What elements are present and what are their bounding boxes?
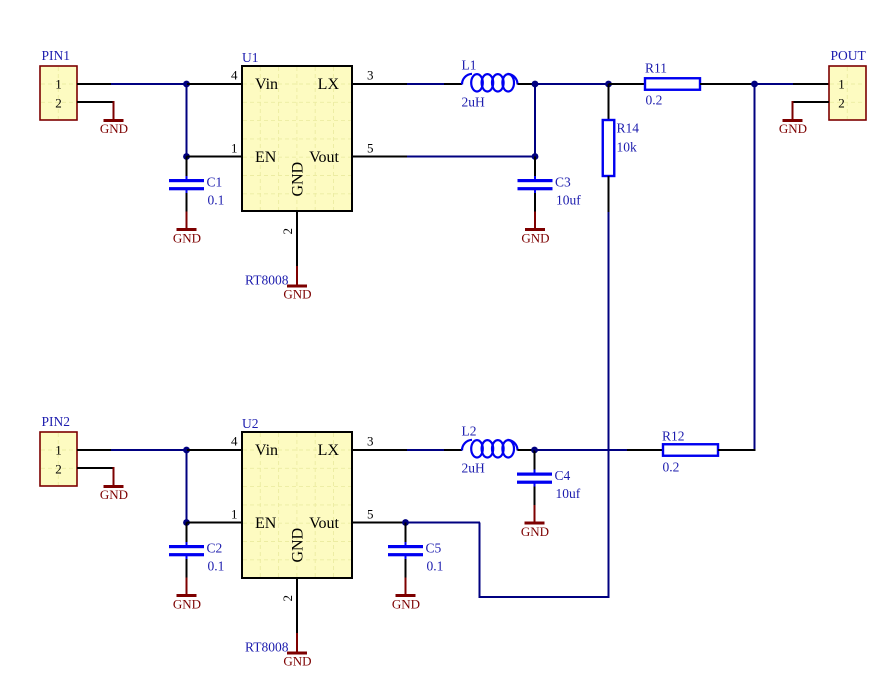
svg-text:0.1: 0.1 (208, 559, 225, 574)
inductor L1 2uH (462, 58, 518, 110)
svg-text:GND: GND (283, 287, 311, 302)
capacitor C4 10uf (517, 450, 581, 539)
pin number 1 of U2 (231, 507, 238, 522)
wire LX pin stub (352, 83, 407, 85)
svg-text:GND: GND (392, 597, 420, 612)
pin number 1 of U1 (231, 141, 238, 156)
wire PIN2 pin2 stub (77, 467, 114, 469)
svg-text:RT8008: RT8008 (245, 273, 289, 288)
wire Vin pin stub (187, 83, 242, 85)
node junction C3 (532, 153, 539, 160)
svg-text:Vin: Vin (255, 442, 278, 459)
IC U2 RT8008 regulator (242, 416, 352, 578)
svg-text:POUT: POUT (831, 48, 867, 63)
connector PIN2 (40, 414, 77, 486)
svg-text:C4: C4 (555, 468, 571, 483)
pin number 3 of U1 (367, 68, 374, 83)
svg-text:RT8008: RT8008 (245, 640, 289, 655)
IC U1 RT8008 regulator (242, 50, 352, 211)
wire R11 left lead (609, 83, 646, 85)
wire feedback bottom horizontal (479, 596, 610, 598)
node junction Vin rail at C2 (183, 447, 190, 454)
node junction C5 (402, 519, 409, 526)
svg-text:C3: C3 (555, 175, 571, 190)
svg-text:U2: U2 (242, 416, 259, 431)
node junction L1 output (532, 81, 539, 88)
capacitor C5 0.1 (388, 523, 443, 612)
connector PIN1 (40, 48, 77, 120)
wire junction to POUT pin1 (755, 83, 830, 85)
capacitor C1 0.1 (169, 157, 224, 246)
wire EN pin stub (187, 522, 243, 524)
wire PIN1 pin1 to junction (77, 83, 188, 85)
wire R14 bottom lead (608, 176, 610, 213)
node junction EN (183, 153, 190, 160)
svg-text:PIN1: PIN1 (42, 48, 71, 63)
wire Vin pin stub (187, 449, 242, 451)
wire R14 top lead (608, 84, 610, 120)
capacitor C3 10uf (518, 157, 582, 246)
label RT8008 for U1 (245, 273, 289, 288)
wire vertical junction to EN (186, 450, 188, 523)
svg-text:U1: U1 (242, 50, 259, 65)
svg-text:3: 3 (367, 68, 374, 83)
svg-text:Vin: Vin (255, 76, 278, 93)
svg-text:0.2: 0.2 (663, 460, 680, 475)
pin number 2 of U1 (280, 228, 295, 235)
svg-text:L1: L1 (462, 58, 477, 73)
svg-text:EN: EN (255, 515, 277, 532)
svg-text:10uf: 10uf (556, 486, 581, 501)
pin number 3 of U2 (367, 434, 374, 449)
resistor R11 0.2 (645, 61, 700, 108)
svg-text:GND: GND (521, 524, 549, 539)
inductor L2 2uH (462, 424, 518, 476)
pin number 5 of U2 (367, 507, 374, 522)
svg-text:2: 2 (280, 595, 295, 602)
svg-text:C2: C2 (207, 541, 223, 556)
node junction L2 output (531, 447, 538, 454)
svg-text:LX: LX (318, 442, 340, 459)
svg-text:0.1: 0.1 (208, 193, 225, 208)
wire PIN1 pin2 stub (77, 101, 114, 103)
svg-text:5: 5 (367, 507, 374, 522)
svg-text:L2: L2 (462, 424, 477, 439)
wire junction L1 to junction R14 (535, 83, 609, 85)
svg-text:GND: GND (290, 528, 307, 563)
svg-text:R11: R11 (645, 61, 667, 76)
svg-text:PIN2: PIN2 (42, 414, 71, 429)
wire U1 Vout to C3 (407, 156, 535, 158)
svg-text:GND: GND (283, 654, 311, 669)
svg-text:5: 5 (367, 141, 374, 156)
svg-text:LX: LX (318, 76, 340, 93)
svg-text:R14: R14 (617, 121, 640, 136)
svg-text:GND: GND (779, 121, 807, 136)
node junction POUT rail (751, 81, 758, 88)
svg-text:2: 2 (280, 228, 295, 235)
wire R12 right lead (718, 449, 756, 451)
wire R12 left lead (627, 449, 663, 451)
ground under PIN2 (100, 467, 128, 502)
svg-text:GND: GND (100, 121, 128, 136)
svg-text:4: 4 (231, 68, 238, 83)
wire EN pin stub (187, 156, 243, 158)
svg-text:3: 3 (367, 434, 374, 449)
wire PIN2 pin1 to junction (77, 449, 188, 451)
wire LX pin stub (352, 449, 407, 451)
wire inductor to junction (518, 83, 536, 85)
svg-text:10uf: 10uf (556, 193, 581, 208)
svg-text:Vout: Vout (309, 515, 339, 532)
svg-text:EN: EN (255, 149, 277, 166)
svg-text:1: 1 (231, 507, 238, 522)
wire U2 Vout to corner (407, 522, 480, 524)
wire vertical POUT junction down to R12 (754, 84, 756, 451)
ground under PIN1 (100, 101, 128, 136)
svg-text:Vout: Vout (309, 149, 339, 166)
capacitor C2 0.1 (169, 523, 224, 612)
wire vertical junction to EN (186, 84, 188, 157)
svg-text:4: 4 (231, 434, 238, 449)
svg-text:GND: GND (100, 487, 128, 502)
svg-text:2: 2 (55, 96, 62, 111)
svg-text:1: 1 (55, 442, 62, 457)
svg-text:R12: R12 (662, 429, 685, 444)
svg-text:2uH: 2uH (462, 461, 486, 476)
pin number 4 of U1 (231, 68, 238, 83)
svg-text:10k: 10k (617, 140, 638, 155)
svg-text:GND: GND (290, 162, 307, 197)
wire POUT pin2 stub (792, 101, 829, 103)
svg-text:C5: C5 (426, 541, 442, 556)
wire vertical L1 junction to Vout rail (534, 84, 536, 157)
wire LX to inductor (407, 449, 462, 451)
wire LX to inductor (407, 83, 462, 85)
svg-text:2: 2 (838, 96, 845, 111)
svg-text:0.1: 0.1 (427, 559, 444, 574)
wire L2 junction to R12 (535, 449, 629, 451)
node junction EN (183, 519, 190, 526)
svg-text:C1: C1 (207, 175, 223, 190)
pin number 5 of U1 (367, 141, 374, 156)
label RT8008 for U2 (245, 640, 289, 655)
wire R11 right lead (700, 83, 755, 85)
wire inductor to junction (518, 449, 536, 451)
wire GND pin 2 stub of U1 (296, 211, 298, 267)
svg-text:1: 1 (838, 76, 845, 91)
wire corner down (479, 523, 481, 598)
svg-text:1: 1 (231, 141, 238, 156)
wire Vout pin stub (352, 522, 407, 524)
ground under U1 (283, 266, 311, 302)
ground under POUT (779, 101, 807, 136)
svg-text:0.2: 0.2 (646, 92, 663, 107)
wire GND pin 2 stub of U2 (296, 578, 298, 634)
svg-text:2uH: 2uH (462, 95, 486, 110)
node junction Vin rail at C1 (183, 81, 190, 88)
resistor R12 0.2 (662, 429, 718, 475)
svg-text:1: 1 (55, 76, 62, 91)
svg-text:2: 2 (55, 462, 62, 477)
resistor R14 10k (603, 120, 640, 176)
node junction R14 top (605, 81, 612, 88)
svg-text:GND: GND (173, 597, 201, 612)
connector POUT (829, 48, 867, 120)
svg-text:GND: GND (521, 231, 549, 246)
pin number 2 of U2 (280, 595, 295, 602)
pin number 4 of U2 (231, 434, 238, 449)
ground under U2 (283, 633, 311, 669)
wire R14 to bottom feedback (608, 212, 610, 597)
wire Vout pin stub (352, 156, 407, 158)
svg-text:GND: GND (173, 231, 201, 246)
